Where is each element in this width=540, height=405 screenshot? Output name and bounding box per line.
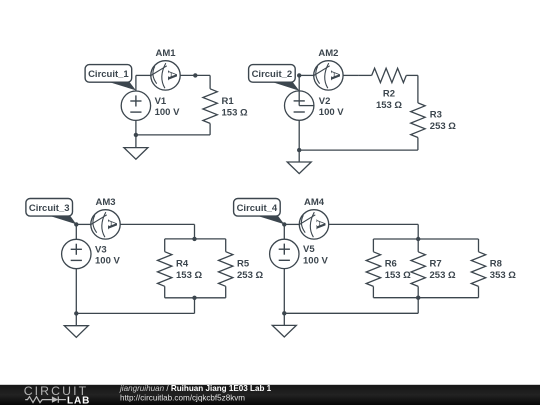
svg-text:R1: R1	[222, 96, 235, 107]
svg-text:R4: R4	[176, 259, 189, 270]
net flag Circuit_4	[234, 199, 285, 225]
wire node to V1 top	[135, 75, 137, 91]
junction node c4 bar top	[416, 237, 420, 241]
svg-text:http://circuitlab.com/cjqkcbf5: http://circuitlab.com/cjqkcbf5z8kvm	[120, 393, 245, 402]
circuit 3 bottom rail	[76, 312, 194, 314]
wire AM2 to R2	[343, 74, 359, 76]
svg-text:V1: V1	[155, 96, 167, 107]
svg-text:253 Ω: 253 Ω	[430, 121, 456, 132]
svg-text:A: A	[164, 70, 179, 81]
ammeter AM1	[150, 61, 180, 90]
wire V1 bottom	[135, 120, 137, 134]
svg-text:100 V: 100 V	[155, 107, 180, 118]
svg-text:A: A	[104, 219, 119, 230]
stray wire overlay	[298, 91, 300, 106]
svg-text:AM2: AM2	[318, 48, 338, 59]
wire node to AM4	[284, 223, 299, 225]
svg-text:R5: R5	[237, 259, 250, 270]
net flag Circuit_3	[26, 199, 76, 225]
svg-text:153 Ω: 153 Ω	[376, 100, 402, 111]
logo resistor-diode glyph	[25, 396, 66, 402]
ground c1	[135, 135, 137, 148]
svg-text:Circuit_4: Circuit_4	[237, 203, 278, 214]
svg-text:LAB: LAB	[67, 395, 90, 405]
ammeter AM2	[313, 61, 343, 90]
junction node c2 bottom	[297, 148, 301, 152]
svg-text:R3: R3	[430, 110, 442, 121]
svg-text:Circuit_2: Circuit_2	[252, 69, 293, 80]
bottom bar c4	[373, 297, 478, 299]
junction node c3 bar top	[192, 237, 196, 241]
wire node to AM3	[76, 223, 91, 225]
wire AM1 to R1	[180, 74, 210, 76]
junction node c1 top	[193, 73, 197, 77]
svg-text:V3: V3	[95, 244, 107, 255]
bottom bar c3	[165, 297, 226, 299]
ground c2	[298, 150, 300, 162]
wire V3 bottom	[75, 269, 77, 314]
ground c4	[283, 313, 285, 325]
svg-text:100 V: 100 V	[303, 255, 328, 266]
wire V2 bottom	[298, 120, 300, 150]
svg-text:R6: R6	[385, 259, 397, 270]
junction node c2 top	[297, 73, 301, 77]
junction node c3 bar bottom	[192, 296, 196, 300]
svg-text:R2: R2	[383, 88, 395, 99]
top bar c4	[373, 238, 478, 240]
svg-text:R8: R8	[490, 259, 502, 270]
svg-text:V2: V2	[319, 96, 331, 107]
junction node c4 bar bottom	[416, 296, 420, 300]
wire right side down	[417, 75, 419, 103]
resistor R8	[478, 239, 480, 252]
stray wire through V2	[298, 75, 300, 105]
junction node c4 rail	[282, 311, 286, 315]
junction node c3 left	[74, 222, 78, 226]
resistor R5	[225, 239, 227, 252]
svg-text:V5: V5	[303, 244, 315, 255]
resistor R1	[209, 75, 211, 88]
junction node c4 left	[282, 222, 286, 226]
resistor R7	[417, 239, 419, 252]
svg-text:153 Ω: 153 Ω	[176, 270, 202, 281]
circuit 2 bottom rail	[299, 149, 418, 151]
svg-text:AM3: AM3	[95, 197, 115, 208]
svg-text:A: A	[327, 70, 342, 81]
svg-text:253 Ω: 253 Ω	[430, 270, 456, 281]
svg-text:253 Ω: 253 Ω	[237, 270, 263, 281]
voltage source V2	[285, 91, 314, 120]
ground c3	[75, 313, 77, 325]
wire bank to rail	[194, 298, 196, 314]
svg-text:AM4: AM4	[304, 197, 325, 208]
svg-text:Circuit_3: Circuit_3	[29, 203, 70, 214]
net flag Circuit_2	[249, 65, 300, 91]
junction node c3 rail	[74, 311, 78, 315]
wire V5 bottom	[283, 269, 285, 314]
voltage source V5	[270, 239, 299, 268]
svg-text:R7: R7	[430, 259, 442, 270]
wire node to AM2	[299, 74, 314, 76]
wire bank to rail c4	[417, 298, 419, 314]
wire AM3 to parallel bank	[120, 223, 194, 225]
svg-text:jiangruihuan / Ruihuan Jiang 1: jiangruihuan / Ruihuan Jiang 1E03 Lab 1	[119, 384, 272, 393]
wire node to V3	[75, 224, 77, 239]
ammeter AM4	[299, 210, 329, 239]
footer bar	[0, 385, 540, 405]
voltage source V3	[62, 239, 91, 268]
wire node to V5	[283, 224, 285, 239]
junction node c1 bottom	[134, 133, 138, 137]
ammeter AM3	[90, 210, 120, 239]
svg-text:353 Ω: 353 Ω	[490, 270, 516, 281]
net flag Circuit_1	[85, 65, 136, 91]
top bar c3	[165, 238, 226, 240]
svg-text:153 Ω: 153 Ω	[222, 107, 248, 118]
svg-text:Circuit_1: Circuit_1	[88, 69, 129, 80]
circuit 4 bottom rail	[284, 312, 418, 314]
svg-text:153 Ω: 153 Ω	[385, 270, 411, 281]
voltage source V1	[121, 91, 150, 120]
svg-text:100 V: 100 V	[95, 256, 120, 267]
wire AM4 to parallel bank	[329, 223, 419, 225]
svg-text:AM1: AM1	[155, 48, 176, 59]
circuit 1 top wire	[136, 74, 151, 76]
resistor R4	[164, 239, 166, 252]
svg-text:100 V: 100 V	[319, 107, 344, 118]
resistor R6	[372, 239, 374, 252]
resistor R2	[372, 68, 407, 82]
svg-text:A: A	[313, 219, 328, 230]
resistor R3	[411, 103, 425, 138]
circuit 1 bottom rail	[136, 134, 210, 136]
